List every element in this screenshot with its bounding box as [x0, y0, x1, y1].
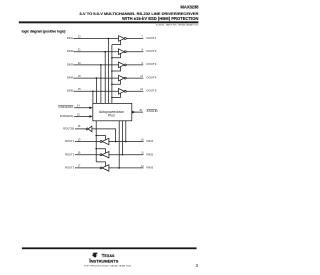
svg-text:RIN2: RIN2 [147, 152, 154, 156]
svg-text:SLLS350D – MARCH 1999 – REVISE: SLLS350D – MARCH 1999 – REVISED JANUARY … [156, 23, 198, 26]
svg-text:ROUT3: ROUT3 [65, 166, 75, 170]
svg-text:3: 3 [196, 263, 199, 268]
svg-text:DOUT5: DOUT5 [147, 89, 157, 93]
svg-text:DIN5: DIN5 [67, 89, 74, 93]
svg-text:ROUT1: ROUT1 [65, 139, 75, 143]
svg-text:DIN3: DIN3 [67, 62, 74, 66]
svg-text:logic diagram (positive logic): logic diagram (positive logic) [22, 30, 66, 34]
svg-text:DOUT4: DOUT4 [147, 75, 157, 79]
svg-text:MAX3238: MAX3238 [180, 5, 199, 10]
svg-text:DOUT3: DOUT3 [147, 62, 157, 66]
svg-text:DIN4: DIN4 [67, 76, 74, 80]
svg-text:RIN1: RIN1 [147, 139, 154, 143]
svg-text:DOUT1: DOUT1 [147, 36, 157, 40]
svg-text:Plus: Plus [108, 114, 115, 118]
svg-text:DOUT2: DOUT2 [147, 49, 157, 53]
svg-text:ROUT2: ROUT2 [65, 152, 75, 156]
svg-text:FORCEON: FORCEON [60, 114, 73, 118]
svg-text:TEXAS: TEXAS [102, 253, 115, 258]
svg-text:DIN2: DIN2 [67, 49, 74, 53]
svg-text:WITH ±15-kV ESD (HBM) PROTECTI: WITH ±15-kV ESD (HBM) PROTECTION [122, 16, 198, 21]
svg-text:POST OFFICE BOX 655303 • DALLA: POST OFFICE BOX 655303 • DALLAS, TEXAS 7… [84, 264, 131, 267]
svg-text:RIN3: RIN3 [147, 166, 154, 170]
svg-text:ROUT1B: ROUT1B [63, 126, 74, 130]
svg-text:FORCEOFF: FORCEOFF [59, 105, 74, 109]
svg-text:DIN1: DIN1 [67, 36, 74, 40]
